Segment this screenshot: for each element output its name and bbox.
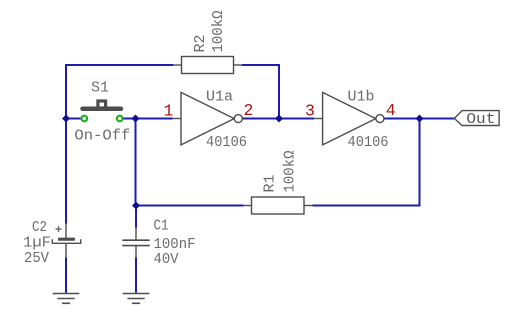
svg-text:1µF: 1µF: [23, 235, 51, 252]
ground (C2): [53, 294, 80, 304]
svg-text:4: 4: [386, 101, 396, 120]
wire: [242, 65, 279, 119]
svg-text:1: 1: [164, 102, 174, 121]
svg-text:R2: R2: [192, 34, 209, 52]
wire: [136, 118, 173, 120]
svg-text:U1a: U1a: [206, 89, 233, 106]
svg-text:Out: Out: [466, 111, 495, 128]
svg-text:100kΩ: 100kΩ: [210, 11, 227, 53]
node junction J4: [416, 115, 424, 123]
wire: [65, 257, 67, 292]
op-amp U1b (inverter): [314, 92, 384, 144]
switch S1: [83, 101, 122, 109]
wire: [120, 118, 136, 120]
svg-text:100kΩ: 100kΩ: [282, 151, 299, 193]
svg-text:40V: 40V: [154, 251, 179, 268]
op-amp U1a (inverter): [173, 92, 243, 144]
svg-text:S1: S1: [91, 80, 109, 97]
pin (green) S1 right: [117, 116, 123, 122]
capacitor C2 (electrolytic): [52, 224, 80, 258]
wire: [66, 65, 173, 224]
svg-text:On-Off: On-Off: [74, 128, 130, 145]
svg-text:40106: 40106: [348, 134, 389, 151]
wire: [243, 118, 315, 120]
node junction J3: [275, 115, 283, 123]
svg-text:2: 2: [244, 101, 254, 120]
svg-text:40106: 40106: [206, 134, 247, 151]
svg-text:25V: 25V: [24, 250, 49, 267]
svg-text:C2: C2: [32, 219, 47, 236]
svg-text:C1: C1: [154, 218, 169, 235]
node junction J1: [62, 115, 70, 123]
wire: [384, 118, 454, 120]
pin (green) S1 left: [82, 116, 88, 122]
wire: [313, 119, 420, 206]
wire: [135, 206, 137, 228]
svg-text:3: 3: [305, 102, 315, 121]
node junction J2: [132, 115, 140, 123]
wire: [135, 258, 137, 293]
resistor R2: [173, 57, 242, 74]
resistor R1: [244, 197, 313, 214]
node Out (flag): [454, 111, 499, 126]
wire: [66, 118, 84, 120]
svg-text:R1: R1: [262, 174, 279, 192]
node junction J5: [132, 202, 140, 210]
svg-text:U1b: U1b: [348, 89, 375, 106]
ground (C1): [123, 294, 150, 304]
wire: [136, 119, 244, 206]
capacitor C1: [122, 228, 149, 258]
wire top-left loop: left rail and top feedback wire: [66, 65, 454, 293]
